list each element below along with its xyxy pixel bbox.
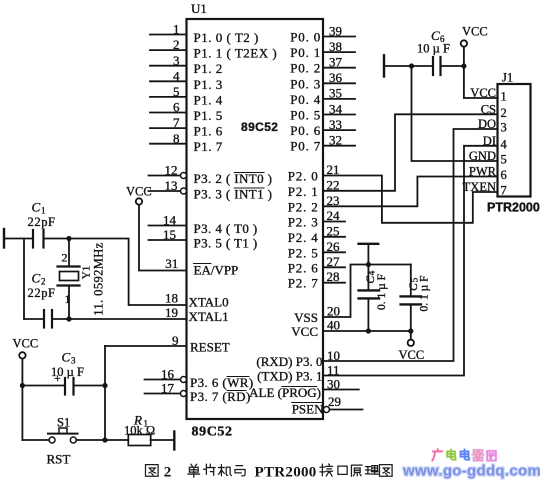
svg-text:2: 2 [173,37,180,52]
junction dot C3 left node [20,383,25,388]
VCC terminal at EA/VPP [126,185,152,205]
svg-text:31: 31 [165,256,178,271]
wire P3.0 pin10 to J1 DO [323,129,498,361]
wire C1 to crystal node and XTAL0 [45,239,187,306]
svg-text:5: 5 [173,84,180,99]
svg-text:P0. 5: P0. 5 [290,108,321,123]
svg-text:P1. 0 ( T2 ): P1. 0 ( T2 ) [194,30,259,45]
svg-text:8: 8 [173,131,180,146]
svg-text:P0. 0: P0. 0 [290,30,321,45]
svg-text:39: 39 [329,23,342,38]
resistor R1 [124,413,155,446]
svg-text:P2. 2: P2. 2 [288,199,319,214]
svg-text:0. 1 µ F: 0. 1 µ F [419,275,431,311]
wire P3.1 pin11 to J1 DI [323,146,498,376]
svg-text:EA/VPP: EA/VPP [194,263,239,278]
ground bar left of C1 [3,229,5,248]
svg-text:P0. 7: P0. 7 [290,139,321,154]
svg-text:22pF: 22pF [28,215,56,229]
svg-text:2: 2 [501,106,507,120]
svg-text:P0. 2: P0. 2 [290,61,321,76]
pin numbers 1-8 [173,22,180,146]
wire P2.1 pin22 to J1 CS [323,114,498,191]
wire C6 left segment [385,65,432,67]
pin numbers 21-28 [327,162,341,284]
junction dot C4 bottom on VCC rail [366,328,371,333]
svg-text:VSS: VSS [294,310,318,325]
svg-text:VCC: VCC [462,25,488,39]
svg-text:P2. 0: P2. 0 [288,169,319,184]
svg-text:DI: DI [483,134,496,148]
svg-text:(TXD) P3. 1: (TXD) P3. 1 [257,369,322,384]
svg-text:P2. 6: P2. 6 [288,260,319,275]
P2 port labels [288,169,319,291]
pin 17 stub with bubble P3.7 RD [145,381,251,405]
svg-text:XTAL0: XTAL0 [189,295,229,310]
svg-text:P2. 3: P2. 3 [288,215,319,230]
svg-text:CS: CS [481,102,496,116]
junction dot GND riser on C6 wire [409,63,414,68]
svg-text:GND: GND [469,149,496,163]
wire R1 to ground bar [151,439,173,441]
svg-text:P1. 3: P1. 3 [194,77,223,92]
riser from RESET pin down to RC node [104,346,106,440]
svg-text:34: 34 [329,101,343,116]
svg-text:10 µ F: 10 µ F [417,42,450,56]
svg-text:P0. 6: P0. 6 [290,123,321,138]
svg-text:C: C [32,271,41,286]
junction dot VCC node [461,63,466,68]
capacitor C1 [28,200,56,248]
pin 9 RESET line [105,333,230,355]
svg-text:VCC: VCC [399,348,425,362]
pin 10 RXD P3.0 label [256,348,340,369]
svg-text:P2. 5: P2. 5 [288,245,319,260]
connector J1 body [487,71,540,215]
svg-text:7: 7 [501,184,507,198]
svg-text:2: 2 [41,277,46,287]
junction dot crystal bottom node [66,316,71,321]
pin 29 PSEN stub with bubble [292,394,363,417]
svg-text:P2. 1: P2. 1 [288,184,319,199]
pin 16 stub with bubble P3.6 WR [145,367,254,391]
svg-text:4: 4 [173,68,180,83]
pin 13 stub with bubble P3.3 [149,178,273,202]
pin 20 VSS label and number [294,304,340,326]
svg-text:6: 6 [501,168,507,182]
svg-text:RESET: RESET [190,340,230,355]
svg-text:5: 5 [501,153,507,167]
wire VCC rail to switch S1 [22,439,49,441]
svg-text:PTR2000: PTR2000 [255,465,317,481]
svg-text:VCC: VCC [13,337,39,351]
svg-text:P3. 5 ( T1 ): P3. 5 ( T1 ) [194,236,258,251]
J1 pin labels [463,86,497,194]
svg-text:DO: DO [478,117,496,131]
svg-text:29: 29 [328,394,341,409]
junction dot C5 bottom on VCC rail [408,328,413,333]
svg-text:1: 1 [41,206,46,216]
svg-text:38: 38 [329,39,342,54]
svg-text:VCC: VCC [126,185,152,199]
svg-text:12: 12 [165,163,178,178]
svg-text:P1. 4: P1. 4 [194,92,223,107]
pin 11 TXD P3.1 label [257,363,339,384]
pin numbers 39-32 [329,23,343,147]
svg-text:TXEN: TXEN [463,180,496,194]
left rail down from C1 wire to C2 wire [23,239,25,320]
svg-text:J1: J1 [502,71,513,85]
svg-text:10k Ω: 10k Ω [124,424,155,438]
svg-text:P1. 7: P1. 7 [194,139,223,154]
J1 pin numbers 1-7 [501,90,508,198]
GND riser down to J1 GND [412,66,498,161]
svg-text:9: 9 [172,333,179,348]
svg-text:3: 3 [173,53,180,68]
svg-text:P0. 3: P0. 3 [290,76,321,91]
svg-text:VCC: VCC [291,324,318,339]
svg-text:30: 30 [327,377,340,392]
svg-text:89C52: 89C52 [241,120,278,134]
svg-text:18: 18 [165,291,178,306]
svg-text:15: 15 [163,227,176,242]
P1 port labels [194,30,278,154]
VCC terminal bottom left [13,337,39,359]
wire C6 right to VCC node [442,65,464,67]
svg-text:P0. 4: P0. 4 [290,92,321,107]
svg-text:XTAL1: XTAL1 [189,309,229,324]
svg-text:4: 4 [501,137,508,151]
svg-text:14: 14 [163,213,177,228]
svg-text:P1. 2: P1. 2 [194,61,223,76]
pin 31 EA/VPP wire to VCC [139,205,238,278]
svg-text:16: 16 [161,367,175,382]
junction dot RC node [102,383,107,388]
svg-text:37: 37 [329,55,343,70]
svg-text:P3. 4 ( T0 ): P3. 4 ( T0 ) [194,221,258,236]
capacitor C6 [417,28,450,75]
svg-text:35: 35 [329,86,342,101]
svg-text:RST: RST [47,452,71,467]
svg-text:3: 3 [501,121,507,135]
pin 14 stub P3.4 T0 [149,213,258,237]
junction dot crystal top node [66,236,71,241]
svg-text:0. 1 µ F: 0. 1 µ F [376,274,388,310]
svg-text:P1. 1 ( T2EX ): P1. 1 ( T2EX ) [194,46,278,61]
wire C2 to XTAL1 pin 19 [53,318,187,320]
junction dot at switch wire [102,437,107,442]
svg-text:www.go-gddq.com: www.go-gddq.com [402,463,540,480]
node junction at C4 top [366,262,371,267]
svg-text:10 µ F: 10 µ F [51,365,84,379]
svg-text:4: 4 [367,270,377,275]
VCC terminal below C5 [399,340,425,362]
wire VCC node down to J1 VCC pin1 [464,47,498,98]
svg-text:C: C [62,350,71,365]
svg-text:2: 2 [62,251,68,265]
pin 24-28 unconnected stubs [323,222,345,283]
ground bar above C4 [359,244,379,265]
svg-text:P3. 3 ( INT1 ): P3. 3 ( INT1 ) [194,187,273,202]
svg-text:VCC: VCC [470,86,496,100]
svg-text:32: 32 [329,133,342,148]
capacitor C2 [24,271,56,328]
svg-text:P3. 2 ( INT0 ): P3. 2 ( INT0 ) [194,171,273,186]
wire VCC down the left rail [21,359,23,440]
capacitor C5 [401,265,431,340]
svg-text:P2. 4: P2. 4 [288,230,319,245]
svg-text:PSEN: PSEN [292,402,324,417]
svg-text:PTR2000: PTR2000 [487,201,540,215]
pin 12 stub with bubble P3.2 [149,163,273,187]
wire pin40 VCC rail [323,330,411,332]
svg-text:PWR: PWR [469,165,497,179]
U1 right pin stubs P0.0-P0.7 pins 39-32 [323,37,355,146]
svg-text:17: 17 [161,381,175,396]
svg-text:11. 0592MHz: 11. 0592MHz [92,242,106,315]
svg-text:33: 33 [329,117,342,132]
svg-text:89C52: 89C52 [192,425,233,440]
svg-text:1: 1 [65,292,71,306]
svg-text:P1. 6: P1. 6 [194,124,223,139]
svg-text:P3. 6 (WR): P3. 6 (WR) [190,375,254,390]
svg-text:6: 6 [173,100,180,115]
svg-text:19: 19 [165,305,178,320]
wire P2.0 pin21 to J1 TXEN [323,176,498,223]
pin 15 stub P3.5 T1 [149,227,258,251]
caption: 图 2 单片机与 PTR2000 接口原理图 [145,464,392,477]
svg-text:S1: S1 [57,416,70,430]
svg-text:36: 36 [329,70,343,85]
svg-text:P2. 7: P2. 7 [288,276,319,291]
crystal Y1 [58,239,106,320]
svg-text:P1. 5: P1. 5 [194,108,223,123]
capacitor C3 electrolytic [22,350,105,395]
pin 19 XTAL1 label [165,305,229,324]
wire C1 left segment [5,238,32,240]
svg-text:13: 13 [165,178,178,193]
svg-text:C: C [32,200,41,215]
wire S1 to R1 [76,439,128,441]
svg-text:7: 7 [173,115,180,130]
op-amp U1 89C52 IC body [187,1,324,440]
ground bar left of C6 [383,55,385,76]
svg-text:Y1: Y1 [81,266,93,279]
VCC terminal top right [461,25,488,47]
svg-text:22pF: 22pF [28,286,56,300]
svg-text:(RXD) P3. 0: (RXD) P3. 0 [256,354,322,369]
svg-text:1: 1 [501,90,507,104]
U1 left pin stubs P1.0-P1.7 pins 1-8 [150,35,187,144]
switch S1 pushbutton [47,416,78,467]
svg-text:3: 3 [71,356,76,366]
watermark 广电电器网 [432,449,496,460]
pin 30 ALE PROG stub [249,377,359,401]
capacitor C4 [359,265,388,332]
P0 port labels [290,30,321,154]
svg-text:P0. 1: P0. 1 [290,45,321,60]
ground bar right of R1 [173,432,175,450]
svg-text:1: 1 [173,22,180,37]
wire P2.2 pin23 to J1 PWR [323,177,498,207]
pin 18 XTAL0 label [165,291,229,310]
svg-text:U1: U1 [191,1,207,16]
svg-text:P3. 7 (RD): P3. 7 (RD) [190,389,251,404]
wire VSS pin20 up to capacitor ground node [323,265,411,318]
pin 40 VCC label and number [291,318,340,340]
svg-text:ALE (PROG): ALE (PROG) [249,385,321,400]
svg-text:2: 2 [164,465,172,481]
